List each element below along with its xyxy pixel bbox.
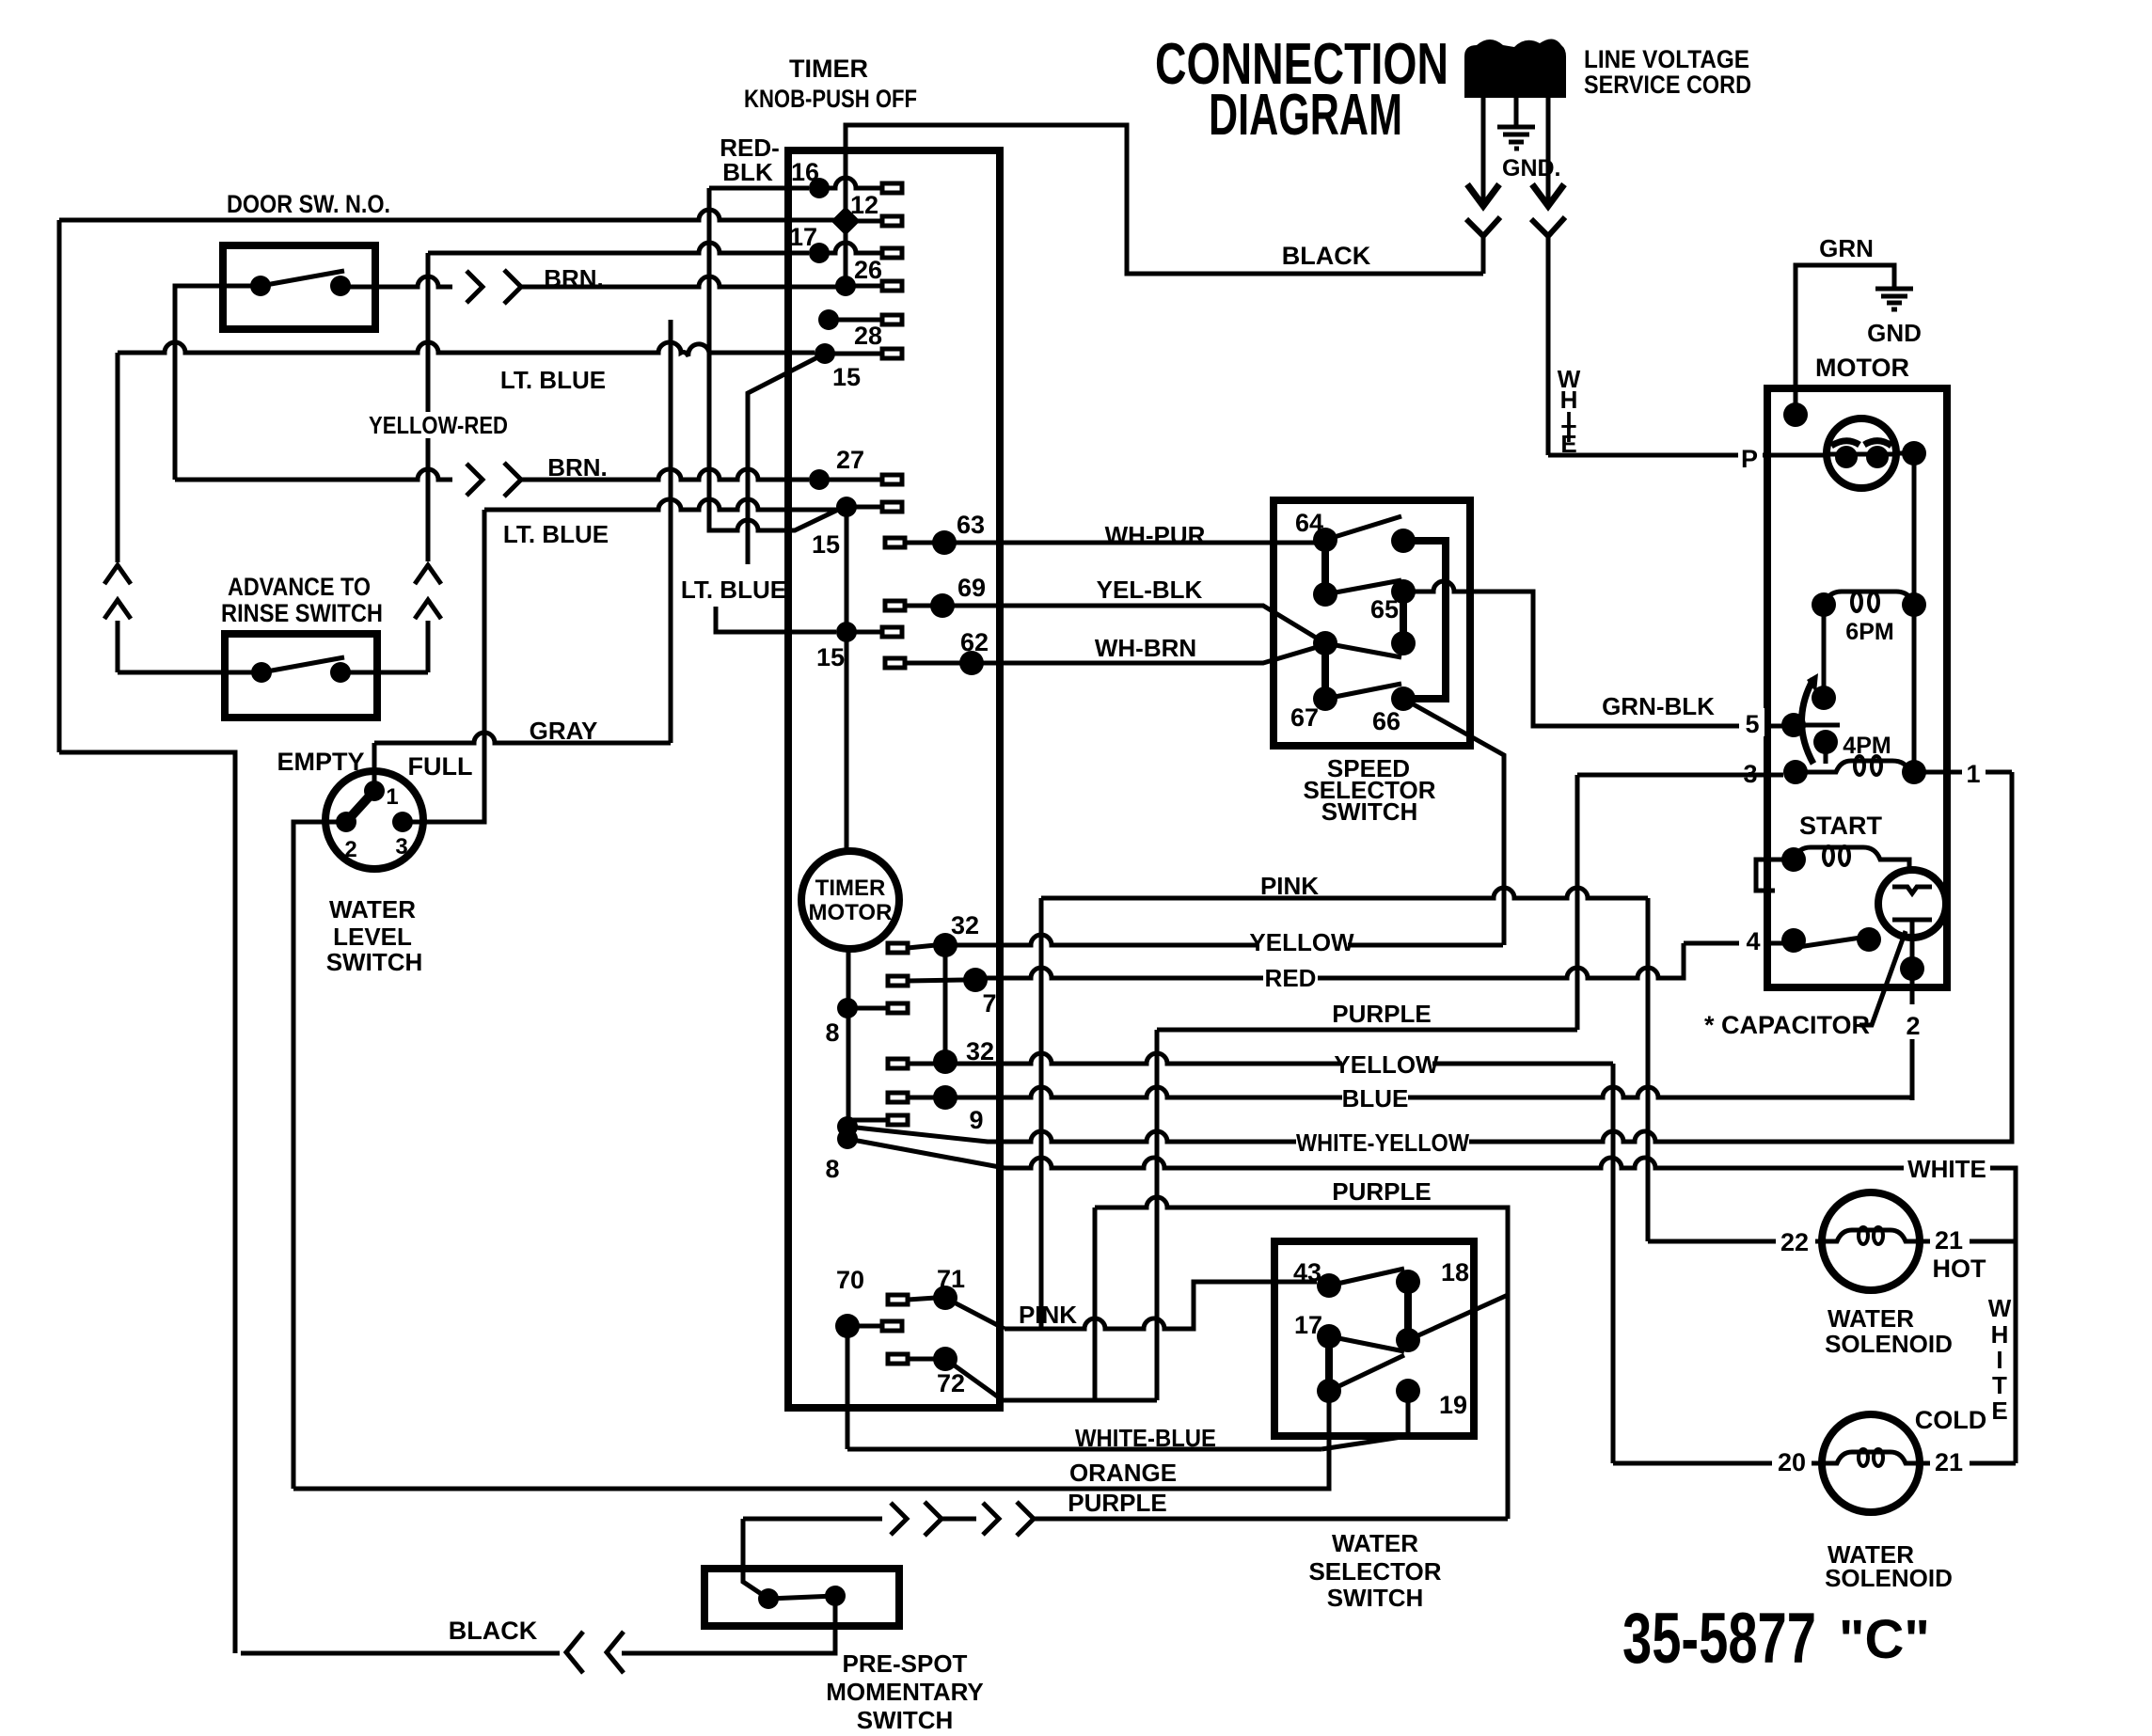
wire lt blue stub lower to 15 xyxy=(716,607,836,632)
svg-text:21: 21 xyxy=(1935,1226,1963,1255)
svg-text:I: I xyxy=(1996,1346,2002,1374)
junction dot 67t center xyxy=(1313,631,1337,655)
wire 26 to spade xyxy=(846,284,882,289)
blade 43 xyxy=(1329,1269,1404,1286)
spade terminal 32a xyxy=(888,943,908,953)
connector chevrons up mid column xyxy=(415,565,441,619)
connector chevrons BRN upper xyxy=(467,270,521,304)
wire PURPLE middle xyxy=(1095,1197,1508,1519)
svg-text:RINSE SWITCH: RINSE SWITCH xyxy=(221,599,383,627)
spade terminal 16 xyxy=(882,183,902,193)
svg-text:DOOR SW. N.O.: DOOR SW. N.O. xyxy=(227,190,390,218)
wire 64-64b link xyxy=(1321,540,1329,594)
junction dot 70 xyxy=(835,1314,860,1338)
label YELLOW upper xyxy=(1258,929,1348,954)
coil cold loops xyxy=(1859,1449,1868,1466)
svg-text:SWITCH: SWITCH xyxy=(1321,797,1418,826)
svg-text:P: P xyxy=(1741,445,1758,473)
blade 71 xyxy=(945,1298,1005,1329)
plug right prong wire xyxy=(1546,98,1551,201)
svg-text:PURPLE: PURPLE xyxy=(1068,1489,1166,1517)
svg-text:E: E xyxy=(1560,430,1576,458)
door switch contact right xyxy=(330,276,351,296)
wire lt blue stub upper xyxy=(748,354,825,564)
wire 3 row xyxy=(1577,773,1783,778)
label YELLOW-RED xyxy=(369,412,508,438)
switch 5 blade curve xyxy=(1802,679,1814,764)
motor rotor circle xyxy=(1827,418,1896,488)
junction dot 3 xyxy=(1783,760,1808,784)
spade terminal 72 xyxy=(888,1354,908,1364)
wire 12 to spade xyxy=(846,219,882,224)
blade 64b xyxy=(1325,580,1401,594)
wire pre-spot right down xyxy=(628,1596,835,1653)
plug ground lead xyxy=(1514,98,1519,126)
wire 18 link xyxy=(1404,1282,1412,1340)
wire 3 riser xyxy=(1575,775,1580,1030)
junction dot 63 xyxy=(932,530,957,555)
wire PINK upper xyxy=(1041,888,1648,898)
svg-text:63: 63 xyxy=(957,511,985,539)
water level pin 3 dot xyxy=(392,812,413,832)
wire BRN lower to timer 27 xyxy=(521,469,809,480)
wire YELLOW lower xyxy=(945,1053,1613,1064)
contact dot 65t xyxy=(1391,579,1416,604)
junction dot 12 xyxy=(831,206,860,235)
connector chevrons purple pair1 xyxy=(891,1502,941,1536)
wire BLACK from plug to timer 12 xyxy=(846,125,1483,274)
advance to rinse switch box xyxy=(225,634,377,718)
wire 32b spade xyxy=(908,1062,936,1066)
spade terminal 27 xyxy=(882,475,902,484)
svg-text:20: 20 xyxy=(1778,1448,1806,1476)
wire door switch left lead xyxy=(175,286,261,480)
wire WHITE long xyxy=(847,1139,2016,1463)
junction dot 5 xyxy=(1781,713,1806,737)
coil 4PM loops xyxy=(1855,756,1864,775)
wire RED xyxy=(975,943,1684,978)
svg-text:MOTOR: MOTOR xyxy=(1815,354,1909,382)
junction dot 8a xyxy=(837,998,858,1018)
wire rinse switch right lead xyxy=(340,671,428,675)
junction dot 8b1 xyxy=(837,1116,858,1137)
junction dot 4PM right xyxy=(1902,760,1926,784)
wire 15a to spade xyxy=(847,505,882,510)
svg-text:72: 72 xyxy=(937,1369,965,1397)
rotor brush dot right xyxy=(1866,446,1889,468)
rotor brush arcs xyxy=(1831,441,1891,446)
junction dot row 340 xyxy=(818,309,839,330)
svg-text:66: 66 xyxy=(1372,707,1400,735)
wire pin2 to orange riser xyxy=(293,822,346,1489)
pre-spot blade xyxy=(743,1573,768,1599)
water level pin 1 dot xyxy=(364,781,385,801)
wire row17 from yellow-red top xyxy=(428,243,809,253)
label 21 hot xyxy=(1930,1226,1970,1253)
coil 6PM xyxy=(1824,592,1914,605)
pre-spot box xyxy=(704,1569,899,1626)
svg-text:70: 70 xyxy=(836,1266,864,1294)
blade 4 xyxy=(1792,937,1867,948)
svg-text:WATER: WATER xyxy=(1332,1529,1418,1557)
junction dot 62 xyxy=(959,651,984,675)
svg-text:WHITE: WHITE xyxy=(1907,1155,1986,1183)
plug left prong wire xyxy=(1481,98,1486,201)
svg-text:43: 43 xyxy=(1293,1258,1321,1286)
junction dot 32b xyxy=(933,1049,957,1074)
capacitor pointer xyxy=(1859,931,1906,1025)
svg-text:BLACK: BLACK xyxy=(1282,242,1371,270)
blade 72 xyxy=(945,1359,1003,1400)
svg-text:17: 17 xyxy=(789,223,817,251)
label BLUE xyxy=(1342,1085,1408,1110)
junction dot 8b2 xyxy=(837,1128,858,1149)
motor box xyxy=(1767,388,1947,987)
wire 1 out xyxy=(1914,770,2012,775)
wire 15b to spade xyxy=(847,630,882,635)
junction dot 6PM right xyxy=(1902,592,1926,617)
arrowhead down right xyxy=(1532,184,1564,206)
junction dot 64 xyxy=(1313,528,1337,552)
svg-text:BLUE: BLUE xyxy=(1342,1084,1409,1113)
pre-spot blade link xyxy=(768,1596,835,1599)
wire 28 to spade xyxy=(825,352,882,356)
spade terminal 28 xyxy=(882,349,902,358)
svg-text:FULL: FULL xyxy=(408,752,473,781)
svg-text:LEVEL: LEVEL xyxy=(333,923,412,951)
wire 72 xyxy=(908,1357,936,1362)
junction dot 18b xyxy=(1396,1328,1420,1352)
label 21 cold xyxy=(1930,1448,1970,1475)
wire 62 xyxy=(905,646,1321,663)
junction dot 6PM bottom xyxy=(1812,686,1836,710)
wire LT. BLUE upper xyxy=(118,342,815,356)
svg-text:* CAPACITOR: * CAPACITOR xyxy=(1704,1011,1870,1039)
wire 15b to timer motor xyxy=(845,632,849,851)
junction dot 26 xyxy=(835,276,856,296)
junction dot start coil xyxy=(1781,847,1806,872)
contact dot 64r xyxy=(1391,529,1416,553)
svg-text:RED: RED xyxy=(1265,964,1317,992)
wire 4PM tap xyxy=(1824,742,1828,764)
svg-text:28: 28 xyxy=(854,322,882,350)
svg-text:MOMENTARY: MOMENTARY xyxy=(826,1678,984,1706)
svg-text:LINE VOLTAGE: LINE VOLTAGE xyxy=(1584,45,1749,73)
svg-text:START: START xyxy=(1799,812,1882,840)
wire 63 xyxy=(905,541,1315,545)
wire 9 xyxy=(908,1096,936,1100)
wire BRN to timer 26 xyxy=(521,276,837,287)
blade 67 xyxy=(1325,684,1401,699)
junction dot 67 xyxy=(1313,687,1337,711)
svg-text:65: 65 xyxy=(1370,595,1399,623)
svg-text:YEL-BLK: YEL-BLK xyxy=(1097,576,1203,604)
svg-text:6PM: 6PM xyxy=(1845,619,1893,645)
svg-text:GND: GND xyxy=(1867,319,1922,347)
svg-text:8: 8 xyxy=(825,1018,839,1047)
connector chevrons black xyxy=(566,1632,624,1673)
svg-text:16: 16 xyxy=(791,158,819,186)
wire WHITE-YELLOW xyxy=(847,772,2012,1142)
junction dot 4b xyxy=(1857,927,1881,952)
timer box xyxy=(788,150,1000,1408)
spade terminal 32b xyxy=(888,1059,908,1068)
svg-text:T: T xyxy=(1992,1371,2007,1399)
label 3 xyxy=(1737,758,1763,786)
svg-text:9: 9 xyxy=(969,1106,983,1134)
wire P row xyxy=(1767,453,1826,458)
rinse switch contact left xyxy=(251,662,272,683)
svg-text:PURPLE: PURPLE xyxy=(1332,1177,1431,1206)
contact dot 65b xyxy=(1391,631,1416,655)
wire BLUE xyxy=(945,1087,1912,1100)
svg-text:5: 5 xyxy=(1745,710,1759,738)
svg-text:17: 17 xyxy=(1294,1311,1322,1339)
wire purple riser 1164 xyxy=(1093,1207,1098,1400)
svg-text:21: 21 xyxy=(1935,1448,1963,1476)
svg-text:62: 62 xyxy=(960,628,989,656)
water selector switch box xyxy=(1274,1241,1474,1436)
wire 12 riser xyxy=(844,125,848,221)
start switch bottom contact xyxy=(1892,918,1932,923)
connector chevrons up left column xyxy=(104,565,131,619)
junction dot 17 xyxy=(809,243,830,263)
junction dot 43 xyxy=(1317,1273,1341,1298)
ground symbol at plug xyxy=(1497,127,1535,149)
wire GRAY horizontal xyxy=(374,733,671,743)
switch 5 bar xyxy=(1794,723,1840,728)
svg-text:64: 64 xyxy=(1295,509,1323,537)
svg-text:BLACK: BLACK xyxy=(449,1617,538,1645)
wire gray riser xyxy=(669,320,673,743)
wire 70 down white-blue xyxy=(846,1326,850,1449)
junction dot 27 xyxy=(809,469,830,490)
junction dot 9 xyxy=(933,1085,957,1110)
junction dot 2 xyxy=(1900,956,1924,981)
line voltage service cord plug xyxy=(1464,39,1566,98)
junction dot 16 xyxy=(809,178,830,198)
blade 18b out xyxy=(1408,1295,1508,1340)
start switch top contact xyxy=(1892,887,1932,893)
rinse switch blade xyxy=(261,657,344,672)
wire rinse switch left lead xyxy=(118,671,261,675)
start switch circle xyxy=(1878,870,1946,938)
wire 65 link xyxy=(1400,592,1407,643)
wire purple riser 1230 xyxy=(1155,1030,1160,1400)
coil hot loops xyxy=(1859,1227,1868,1244)
svg-text:32: 32 xyxy=(951,911,979,939)
svg-text:SOLENOID: SOLENOID xyxy=(1825,1564,1953,1592)
speed selector switch box xyxy=(1274,500,1470,746)
contact dot 66 xyxy=(1391,687,1416,711)
label 5 xyxy=(1739,708,1764,736)
wire red-blk vertical xyxy=(709,188,840,530)
spade terminal 71 xyxy=(888,1295,908,1304)
svg-text:GRAY: GRAY xyxy=(530,717,598,745)
svg-text:YELLOW: YELLOW xyxy=(1249,928,1354,956)
svg-text:SWITCH: SWITCH xyxy=(326,948,423,976)
svg-text:19: 19 xyxy=(1439,1391,1467,1419)
svg-text:LT. BLUE: LT. BLUE xyxy=(681,576,786,604)
receptacle chevron right xyxy=(1531,217,1565,236)
junction dot 69 xyxy=(930,593,955,618)
start coil left notch xyxy=(1756,860,1794,891)
svg-text:KNOB-PUSH OFF: KNOB-PUSH OFF xyxy=(744,85,917,113)
arrowhead down left xyxy=(1467,184,1499,206)
svg-text:18: 18 xyxy=(1441,1258,1469,1286)
svg-text:BLK: BLK xyxy=(722,158,773,186)
svg-text:15: 15 xyxy=(812,530,840,559)
wire left border vertical xyxy=(57,220,62,752)
spade terminal 7 xyxy=(888,976,908,986)
wire 70 to spade xyxy=(847,1324,882,1329)
coil START loops xyxy=(1824,846,1833,865)
wire rotor to right xyxy=(1895,451,1914,456)
junction dot 4 xyxy=(1781,928,1806,953)
wire 4 entry xyxy=(1684,941,1788,946)
svg-text:GRN: GRN xyxy=(1819,234,1874,262)
spade terminal 26 xyxy=(882,281,902,291)
wire pin1 to gray xyxy=(372,743,377,791)
svg-text:WHITE-BLUE: WHITE-BLUE xyxy=(1075,1424,1216,1452)
heavy link bar right xyxy=(1403,541,1446,699)
wire 12-26 link xyxy=(844,221,848,286)
svg-text:WATER: WATER xyxy=(329,895,416,923)
svg-text:PINK: PINK xyxy=(1019,1301,1077,1329)
svg-text:SWITCH: SWITCH xyxy=(857,1706,954,1734)
wire 2 down to blue xyxy=(1910,969,1915,1100)
connector chevrons BRN lower xyxy=(467,463,521,497)
wire grn stub in box xyxy=(1794,402,1798,415)
wire yellow riser to cold xyxy=(1611,1064,1616,1463)
svg-text:ADVANCE TO: ADVANCE TO xyxy=(228,573,371,601)
junction dot 6PM left xyxy=(1812,592,1836,617)
wire purple to pre-spot xyxy=(741,1519,746,1582)
wire PURPLE bottom xyxy=(743,1517,1508,1522)
spade terminal 15b xyxy=(882,627,902,637)
wire 71 xyxy=(908,1298,936,1300)
label RED xyxy=(1263,965,1318,989)
wire pink riser to 71 xyxy=(1039,898,1044,1329)
spade terminal 15a xyxy=(882,502,902,512)
wire 19 down xyxy=(1321,1391,1408,1449)
wire 69 xyxy=(905,606,1321,640)
wire BLACK bottom xyxy=(241,1651,628,1656)
svg-text:22: 22 xyxy=(1780,1228,1809,1256)
wire row340 to spade xyxy=(829,318,882,323)
svg-text:SELECTOR: SELECTOR xyxy=(1308,1557,1441,1586)
spade terminal 8b xyxy=(888,1115,908,1125)
svg-text:W: W xyxy=(1988,1294,2012,1322)
svg-text:YELLOW-RED: YELLOW-RED xyxy=(369,411,508,439)
wire 72 link horizontal xyxy=(1003,1398,1157,1403)
wire PURPLE upper xyxy=(1157,1028,1577,1033)
svg-text:12: 12 xyxy=(850,191,878,219)
spade terminal 69 xyxy=(885,601,905,610)
junction dot 71 xyxy=(933,1286,957,1310)
svg-text:COLD: COLD xyxy=(1915,1406,1987,1434)
wire start sw down xyxy=(1910,920,1915,969)
rotor wire across xyxy=(1828,452,1895,457)
wire WHITE to motor P xyxy=(1548,453,1767,458)
wire 32a-32b link xyxy=(943,945,948,1062)
wire left border jog xyxy=(59,752,235,1653)
svg-text:"C": "C" xyxy=(1839,1609,1930,1670)
svg-text:1: 1 xyxy=(386,784,398,810)
junction dot 17b xyxy=(1317,1379,1341,1403)
coil hot xyxy=(1826,1230,1916,1241)
wire ORANGE xyxy=(293,1391,1329,1489)
svg-text:TIMER: TIMER xyxy=(815,876,886,901)
spade terminal 9 xyxy=(888,1093,908,1102)
label P xyxy=(1738,440,1763,470)
junction dot 15a xyxy=(836,497,857,517)
svg-text:8: 8 xyxy=(825,1155,839,1183)
svg-text:15: 15 xyxy=(816,643,845,671)
junction dot 72 xyxy=(933,1347,957,1371)
svg-text:PRE-SPOT: PRE-SPOT xyxy=(843,1649,968,1678)
svg-text:27: 27 xyxy=(836,446,864,474)
svg-text:2: 2 xyxy=(1906,1012,1920,1040)
wire 17 to spade xyxy=(819,243,882,253)
svg-text:7: 7 xyxy=(982,989,996,1018)
blade 17w xyxy=(1329,1336,1404,1351)
junction dot 64b xyxy=(1313,582,1337,607)
rinse switch contact right xyxy=(330,662,351,683)
svg-text:2: 2 xyxy=(344,837,356,862)
wire 67 link xyxy=(1321,643,1329,699)
svg-text:SERVICE CORD: SERVICE CORD xyxy=(1584,71,1751,99)
wire 8a to spade xyxy=(847,1006,888,1011)
label 20 xyxy=(1772,1448,1812,1475)
wire LT. BLUE lower xyxy=(484,499,836,510)
svg-text:HOT: HOT xyxy=(1933,1255,1987,1283)
door switch contact left xyxy=(250,276,271,296)
svg-text:LT. BLUE: LT. BLUE xyxy=(500,366,606,394)
receptacle chevron left xyxy=(1466,217,1500,236)
wire PINK lower xyxy=(1005,1282,1317,1329)
wire 21 hot xyxy=(1919,1239,2016,1244)
svg-text:MOTOR: MOTOR xyxy=(809,900,893,925)
label 22 xyxy=(1776,1228,1815,1255)
wire YELLOW upper xyxy=(945,935,1503,945)
blade center xyxy=(1325,643,1401,657)
spade terminal 12 xyxy=(882,216,902,226)
spade terminal 17 xyxy=(882,248,902,258)
wire pink right riser to hot xyxy=(1646,898,1651,1241)
blade 64 xyxy=(1325,516,1401,540)
wire BRN lower from x186 xyxy=(175,469,452,480)
coil 6PM loops xyxy=(1852,592,1861,611)
svg-text:WH-PUR: WH-PUR xyxy=(1105,521,1206,549)
wire 7 xyxy=(908,980,965,981)
water level blade xyxy=(346,791,374,822)
wire 27 to spade xyxy=(819,478,882,482)
svg-text:SOLENOID: SOLENOID xyxy=(1825,1330,1953,1358)
svg-text:69: 69 xyxy=(957,574,986,602)
blade 17b xyxy=(1329,1355,1404,1391)
wire yellow-red vertical xyxy=(426,253,431,672)
door switch blade xyxy=(261,271,344,286)
spade terminal 70 xyxy=(882,1321,902,1331)
timer motor circle xyxy=(801,851,899,949)
wire 20 cold xyxy=(1613,1461,1823,1466)
wire 15a-15b link xyxy=(845,507,849,632)
wire pin3 to lt blue riser xyxy=(403,510,484,822)
wire door sw net top xyxy=(59,210,837,220)
pre-spot dot right xyxy=(825,1586,846,1606)
label YELLOW lower xyxy=(1342,1051,1432,1076)
